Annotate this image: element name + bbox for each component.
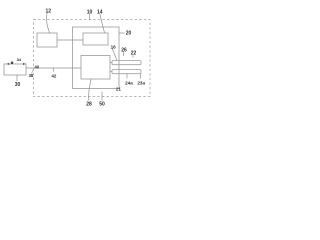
svg-text:28: 28	[86, 102, 92, 108]
svg-text:24a: 24a	[125, 81, 133, 86]
svg-text:14: 14	[97, 10, 103, 16]
svg-text:21: 21	[116, 86, 122, 91]
svg-text:20: 20	[126, 31, 132, 37]
svg-text:16: 16	[111, 44, 117, 49]
svg-text:23a: 23a	[137, 81, 145, 86]
svg-text:10: 10	[87, 10, 93, 16]
svg-text:38: 38	[29, 73, 34, 78]
svg-text:26: 26	[121, 48, 127, 54]
svg-text:12: 12	[46, 8, 52, 14]
svg-text:34: 34	[17, 57, 22, 62]
svg-text:22: 22	[131, 51, 137, 57]
svg-text:30: 30	[15, 82, 21, 88]
svg-text:50: 50	[99, 102, 105, 108]
svg-text:42: 42	[51, 73, 56, 78]
svg-text:40: 40	[34, 64, 39, 69]
